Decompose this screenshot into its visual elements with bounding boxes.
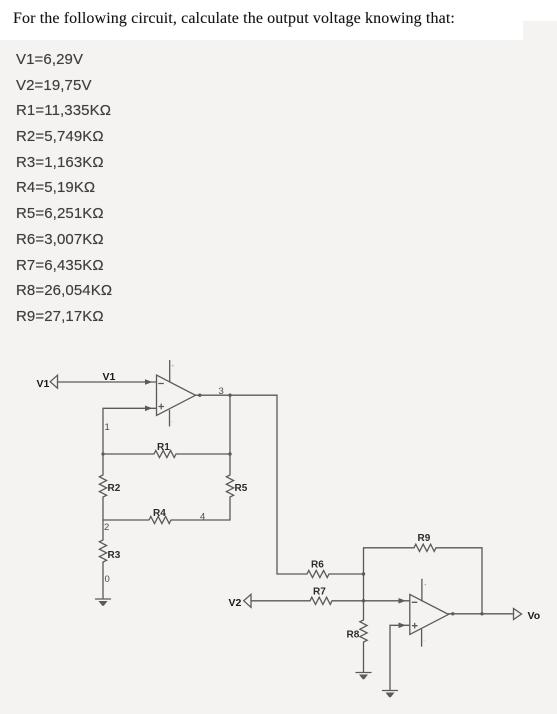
wire junction up to R9: [363, 548, 365, 601]
ground G1: [96, 599, 111, 606]
svg-text:4: 4: [200, 512, 205, 523]
resistor R5 and vertical from node3: [226, 395, 247, 520]
svg-text:1: 1: [105, 422, 110, 433]
resistor R9: [364, 533, 483, 551]
svg-text:R8: R8: [347, 630, 360, 641]
svg-text:R5: R5: [235, 483, 248, 494]
resistor R2: [99, 454, 120, 520]
svg-text:Vo: Vo: [528, 610, 541, 622]
svg-text:R6: R6: [311, 560, 324, 571]
svg-text:R2: R2: [108, 483, 121, 494]
svg-text:V2: V2: [229, 597, 242, 609]
ground G2: [356, 673, 371, 680]
svg-text:R9: R9: [418, 533, 431, 544]
wire V1 to U1 minus input: [58, 371, 157, 385]
ground G3: [383, 691, 398, 698]
wire U2 output to Vo: [449, 612, 514, 615]
wire R9 down to output: [481, 548, 483, 614]
resistor R7 wire V2 to U2 minus input: [251, 587, 410, 605]
svg-text:3: 3: [219, 386, 224, 397]
svg-text:R1: R1: [157, 442, 170, 453]
svg-text:R3: R3: [108, 550, 121, 561]
svg-text:2: 2: [104, 522, 109, 533]
wire U1 output to node 3 corner: [196, 394, 278, 397]
svg-text:0: 0: [105, 574, 110, 585]
svg-text:+: +: [424, 582, 427, 587]
port Vo: [514, 609, 541, 623]
resistor R6: [277, 560, 365, 578]
wire U1 plus input to node 1: [103, 406, 157, 455]
svg-text:V1: V1: [103, 371, 116, 383]
op-amp U2: [410, 579, 455, 646]
wire node3 down to R6: [276, 395, 278, 574]
op-amp U1: [157, 361, 202, 427]
svg-text:-: -: [171, 418, 173, 423]
port V2: [229, 594, 252, 609]
resistor R1: [101, 442, 231, 458]
svg-text:V1: V1: [37, 378, 50, 390]
svg-text:+: +: [172, 363, 175, 368]
svg-text:-: -: [423, 637, 425, 642]
wire U2 plus input to ground G3: [390, 623, 410, 691]
resistor R8: [347, 601, 368, 672]
port V1: [37, 375, 58, 390]
resistor R3: [99, 520, 120, 598]
resistor R4: [103, 508, 230, 524]
svg-text:R4: R4: [153, 508, 166, 519]
svg-text:R7: R7: [313, 587, 326, 598]
